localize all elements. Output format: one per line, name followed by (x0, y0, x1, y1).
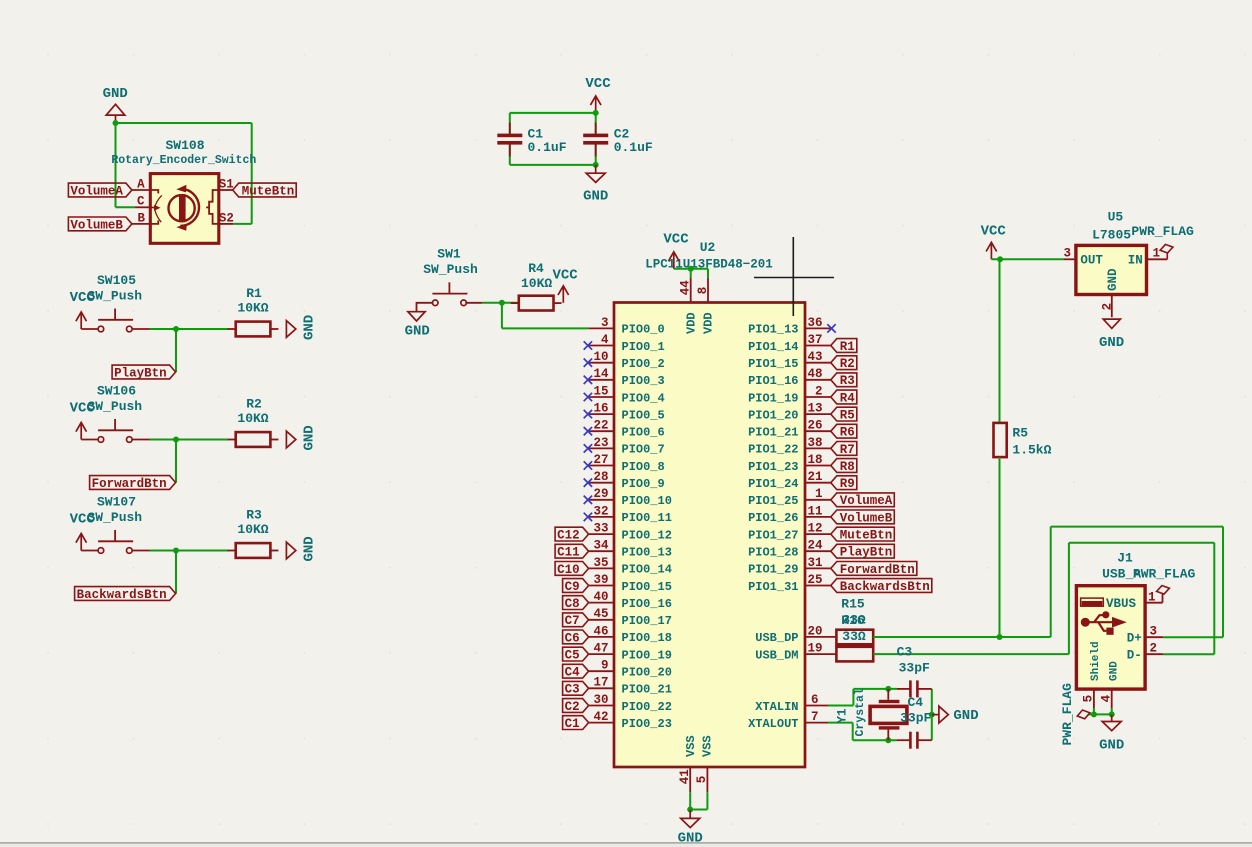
svg-text:C7: C7 (565, 614, 580, 628)
U2 pin 6 XTALIN (755, 693, 828, 714)
wire GND to S2 (bottom segment) (233, 223, 252, 225)
svg-text:26: 26 (807, 419, 822, 433)
svg-text:SW1: SW1 (437, 247, 461, 262)
wire USB_DP up (1050, 527, 1052, 637)
wire to pin 3 PIO0_0 (502, 327, 589, 329)
net label VolumeA (68, 183, 131, 197)
svg-text:2: 2 (815, 384, 823, 398)
svg-text:27: 27 (593, 453, 608, 467)
net label BackwardsBtn (831, 579, 932, 593)
svg-text:36: 36 (807, 316, 822, 330)
net label R8 (831, 459, 857, 473)
U2 pin 17 PIO0_21 (589, 676, 672, 697)
U5 pin 3 OUT (1063, 247, 1103, 268)
svg-text:PIO0_0: PIO0_0 (622, 323, 665, 337)
svg-text:GND: GND (1108, 661, 1120, 681)
svg-text:PIO1_14: PIO1_14 (748, 340, 798, 354)
J1 pin 3 D+ (1127, 625, 1163, 646)
net label C1 (563, 716, 589, 730)
net label C12 (555, 527, 589, 541)
svg-text:D-: D- (1127, 649, 1142, 663)
wire R5 down to USB_DP (999, 457, 1001, 637)
capacitor C1 (497, 123, 522, 157)
net label R7 (831, 442, 857, 456)
svg-text:38: 38 (807, 436, 822, 450)
svg-text:D+: D+ (1127, 632, 1142, 646)
svg-text:XTALIN: XTALIN (755, 700, 798, 714)
svg-text:ForwardBtn: ForwardBtn (92, 477, 167, 491)
net label C2 (563, 699, 589, 713)
svg-text:R2: R2 (840, 357, 855, 371)
junction J1 shield (1091, 711, 1097, 717)
resistor R1 (228, 322, 279, 337)
svg-text:GND: GND (302, 315, 318, 340)
wire C1 bottom vertical (509, 144, 511, 165)
svg-text:U2: U2 (700, 240, 716, 255)
power symbol VCC (SW106) (70, 400, 99, 439)
svg-text:R4: R4 (528, 261, 544, 276)
net label R6 (831, 424, 857, 438)
svg-text:Shield: Shield (1090, 641, 1102, 681)
net label PlayBtn (831, 544, 895, 558)
svg-text:C10: C10 (557, 563, 580, 577)
wire XTALIN to crystal (828, 705, 853, 707)
svg-text:PIO0_21: PIO0_21 (622, 683, 672, 697)
svg-text:SW105: SW105 (97, 273, 136, 288)
svg-text:Rotary_Encoder_Switch: Rotary_Encoder_Switch (111, 154, 256, 167)
junction ForwardBtn node (173, 437, 179, 443)
svg-text:VolumeA: VolumeA (840, 494, 893, 508)
svg-text:11: 11 (807, 504, 822, 518)
power symbol VCC (R4 pull-up) (552, 268, 578, 303)
svg-text:C: C (137, 195, 145, 209)
svg-text:PIO0_20: PIO0_20 (622, 666, 672, 680)
svg-text:PIO0_15: PIO0_15 (622, 580, 672, 594)
svg-text:1.5kΩ: 1.5kΩ (1012, 443, 1051, 458)
net label VolumeB (68, 217, 131, 231)
svg-text:31: 31 (807, 556, 822, 570)
svg-text:VBUS: VBUS (1106, 597, 1137, 611)
svg-text:R9: R9 (840, 477, 855, 491)
wire C1 top vertical (509, 113, 511, 134)
svg-text:PIO1_19: PIO1_19 (748, 391, 798, 405)
U2 pin 25 PIO1_31 (748, 573, 831, 594)
svg-text:PIO1_27: PIO1_27 (748, 528, 798, 542)
SW108 pin B (132, 211, 150, 225)
svg-text:30: 30 (593, 693, 608, 707)
svg-text:GND: GND (302, 536, 318, 561)
power symbol VCC (U2) (663, 232, 689, 269)
U2 pin 32 PIO0_11 (no-connect) (584, 504, 672, 525)
svg-text:OUT: OUT (1080, 254, 1103, 268)
svg-text:12: 12 (807, 522, 822, 536)
svg-text:35: 35 (593, 556, 608, 570)
U2 pin 37 PIO1_14 (748, 333, 831, 354)
svg-text:8: 8 (696, 287, 710, 295)
svg-text:GND: GND (302, 425, 318, 450)
U2 pin 7 XTALOUT (748, 710, 828, 731)
net label PlayBtn (112, 365, 176, 379)
wire crystal left down (852, 723, 854, 741)
svg-text:C8: C8 (565, 597, 580, 611)
svg-text:PIO0_13: PIO0_13 (622, 546, 672, 560)
wire SW107 to R3 (150, 550, 229, 552)
wire VDD pin 44 drop (690, 269, 692, 278)
svg-text:29: 29 (593, 487, 608, 501)
svg-text:Y1: Y1 (836, 708, 850, 723)
svg-text:39: 39 (593, 573, 608, 587)
net label C11 (555, 544, 589, 558)
net label R5 (831, 407, 857, 421)
capacitor C2 (583, 123, 608, 157)
svg-text:14: 14 (593, 367, 609, 381)
svg-text:4: 4 (601, 333, 609, 347)
svg-text:SW108: SW108 (165, 138, 204, 153)
junction VCC at pin 44 (688, 266, 694, 272)
wire crystal right rail (931, 689, 933, 740)
svg-text:J1: J1 (1117, 551, 1133, 566)
U2 pin 26 PIO1_21 (748, 419, 831, 440)
U2 pin 3 PIO0_0 (589, 316, 665, 337)
wire USB_DP top run (1051, 526, 1223, 528)
svg-text:PlayBtn: PlayBtn (840, 546, 893, 560)
svg-text:28: 28 (593, 470, 608, 484)
U2 pin 38 PIO1_22 (748, 436, 831, 457)
svg-text:18: 18 (807, 453, 822, 467)
svg-text:IN: IN (1128, 254, 1143, 268)
svg-text:PIO1_31: PIO1_31 (748, 580, 798, 594)
wire USB_DP to corner (1000, 636, 1051, 638)
wire GND down to pin C (115, 123, 117, 207)
wire crystal left up (852, 689, 854, 706)
junction J1 gnd (1109, 711, 1115, 717)
power symbol GND (SW106 net) (286, 425, 317, 450)
power symbol GND (J1) (1099, 714, 1124, 753)
svg-text:13: 13 (807, 402, 822, 416)
svg-text:U5: U5 (1108, 209, 1124, 224)
junction BackwardsBtn node (173, 548, 179, 554)
wire USB_DM down to D- (1213, 543, 1215, 654)
J1 pin 4 GND (1100, 661, 1121, 708)
U2 pin 40 PIO0_16 (589, 590, 672, 611)
net label ForwardBtn (90, 476, 176, 490)
svg-text:1: 1 (1148, 590, 1156, 604)
rotary encoder switch SW108 body (150, 174, 219, 244)
wire VCC to U5 OUT (991, 258, 1063, 260)
wire to J1 D+ pin (1163, 636, 1223, 638)
U2 pin 1 PIO1_25 (748, 487, 831, 508)
U2 pin 15 PIO0_4 (no-connect) (584, 384, 665, 405)
U2 pin 8 VDD (696, 278, 716, 334)
svg-text:9: 9 (601, 659, 609, 673)
svg-text:47: 47 (593, 642, 608, 656)
junction GND at U2 (687, 807, 693, 813)
svg-text:PIO0_14: PIO0_14 (622, 563, 672, 577)
svg-text:C11: C11 (557, 546, 580, 560)
SW108 pin A (132, 178, 150, 192)
U2 pin 21 PIO1_24 (748, 470, 831, 491)
J1 USB trident icon (1081, 611, 1126, 635)
svg-text:PIO1_22: PIO1_22 (748, 443, 798, 457)
svg-text:PWR_FLAG: PWR_FLAG (1131, 224, 1194, 239)
svg-text:C4: C4 (565, 666, 581, 680)
net label C10 (555, 562, 589, 576)
power flag PWR_FLAG symbol (J1 shield) (1076, 708, 1091, 720)
net label VolumeA (831, 493, 895, 507)
svg-text:VSS: VSS (684, 735, 698, 757)
wire USB_DP down to D+ (1222, 527, 1224, 638)
capacitor C3 (897, 680, 932, 697)
power symbol GND (SW1) (405, 303, 434, 340)
svg-text:S2: S2 (219, 211, 234, 225)
svg-text:VCC: VCC (585, 76, 611, 92)
net label VolumeB (831, 510, 895, 524)
svg-text:R15: R15 (841, 597, 865, 612)
wire R16 to corner (873, 653, 1069, 655)
junction SW1 node (499, 300, 505, 306)
svg-text:33pF: 33pF (900, 711, 931, 726)
wire R15 to USB_DP net (873, 636, 999, 638)
SW108 pin S2 (219, 211, 234, 225)
svg-text:MuteBtn: MuteBtn (840, 529, 893, 543)
svg-text:GND: GND (103, 86, 128, 102)
svg-text:2: 2 (1149, 642, 1157, 656)
wire VSS pin 41 to GND (689, 792, 691, 809)
svg-text:R6: R6 (840, 426, 855, 440)
net label C6 (563, 630, 589, 644)
svg-text:VCC: VCC (981, 224, 1007, 240)
svg-text:R4: R4 (840, 391, 856, 405)
U2 pin 16 PIO0_5 (no-connect) (584, 402, 665, 423)
svg-text:5: 5 (695, 776, 709, 784)
power symbol VCC (SW105) (70, 290, 99, 329)
svg-text:PIO1_25: PIO1_25 (748, 494, 798, 508)
svg-text:10KΩ: 10KΩ (237, 301, 268, 316)
svg-text:PIO1_21: PIO1_21 (748, 426, 798, 440)
svg-text:42: 42 (593, 710, 608, 724)
wire VSS join (690, 809, 707, 811)
U2 pin 30 PIO0_22 (589, 693, 672, 714)
svg-text:3: 3 (601, 316, 609, 330)
U2 pin 35 PIO0_14 (589, 556, 672, 577)
power symbol GND (decoupling) (583, 165, 608, 205)
net label C7 (563, 613, 589, 627)
junction crystal bottom (885, 737, 891, 743)
svg-text:BackwardsBtn: BackwardsBtn (77, 588, 167, 602)
svg-text:R3: R3 (840, 374, 855, 388)
resistor R15 (836, 630, 873, 645)
net label R2 (831, 356, 857, 370)
wire to J1 D- pin (1163, 653, 1214, 655)
wire down to label BackwardsBtn (175, 551, 177, 594)
svg-text:PIO0_16: PIO0_16 (622, 597, 672, 611)
svg-text:43: 43 (807, 350, 822, 364)
wire SW106 to R2 (150, 439, 229, 441)
crystal Y1 (870, 689, 907, 740)
U2 pin 19 USB_DM (755, 642, 836, 663)
SW108 pin C (135, 195, 150, 209)
svg-text:VolumeB: VolumeB (70, 218, 123, 232)
regulator U5 body (1076, 245, 1147, 294)
power symbol GND (rotary encoder) (103, 86, 128, 123)
J1 VBUS blade icon (1081, 598, 1104, 606)
svg-text:40: 40 (593, 590, 608, 604)
U2 pin 42 PIO0_23 (589, 710, 672, 731)
svg-text:R3: R3 (246, 508, 262, 523)
svg-text:C6: C6 (565, 631, 580, 645)
svg-text:USB_DP: USB_DP (755, 631, 798, 645)
U2 pin 23 PIO0_7 (no-connect) (584, 436, 665, 457)
svg-text:PIO0_5: PIO0_5 (622, 408, 665, 422)
U2 pin 10 PIO0_2 (no-connect) (584, 350, 665, 371)
svg-text:GND: GND (405, 324, 430, 340)
svg-text:PIO1_15: PIO1_15 (748, 357, 798, 371)
wire C2 bottom vertical (595, 144, 597, 165)
wire to pin C (horizontal) (116, 206, 135, 208)
U2 pin 29 PIO0_10 (no-connect) (584, 487, 672, 508)
power symbol VCC (decoupling) (585, 76, 611, 113)
wire down to label ForwardBtn (175, 440, 177, 483)
U2 pin 20 USB_DP (755, 624, 836, 645)
U2 pin 44 VDD (678, 278, 698, 334)
svg-text:22: 22 (593, 419, 608, 433)
net label MuteBtn (233, 183, 297, 197)
capacitor C4 (897, 732, 932, 749)
svg-text:SW_Push: SW_Push (87, 399, 142, 414)
svg-text:SW_Push: SW_Push (87, 510, 142, 525)
svg-text:PIO1_20: PIO1_20 (748, 408, 798, 422)
wire USB_DM up (1068, 543, 1070, 654)
svg-text:1: 1 (815, 487, 823, 501)
svg-text:PIO0_23: PIO0_23 (622, 717, 672, 731)
svg-text:VolumeB: VolumeB (840, 511, 893, 525)
svg-text:PIO0_4: PIO0_4 (622, 391, 665, 405)
U2 pin 45 PIO0_17 (589, 607, 672, 628)
svg-text:32: 32 (593, 504, 608, 518)
net label ForwardBtn (831, 562, 917, 576)
net label R1 (831, 339, 857, 353)
svg-text:ForwardBtn: ForwardBtn (840, 563, 915, 577)
SW108 pin S1 (219, 177, 234, 191)
svg-text:0.1uF: 0.1uF (528, 140, 567, 155)
svg-text:GND: GND (678, 830, 703, 846)
U2 pin 12 PIO1_27 (748, 522, 831, 543)
svg-text:10KΩ: 10KΩ (237, 522, 268, 537)
U2 pin 11 PIO1_26 (748, 504, 831, 525)
svg-text:B: B (137, 211, 145, 225)
svg-text:PIO0_3: PIO0_3 (622, 374, 665, 388)
switch SW107 (98, 530, 149, 553)
J1 pin 5 Shield (1082, 641, 1102, 708)
svg-text:GND: GND (1099, 335, 1124, 351)
svg-text:PIO0_11: PIO0_11 (622, 511, 672, 525)
resistor R16 (836, 647, 873, 662)
svg-text:PIO0_2: PIO0_2 (622, 357, 665, 371)
wire Shield pin down (1093, 708, 1095, 714)
wire junction down to PIO0_0 (501, 303, 503, 329)
svg-text:10KΩ: 10KΩ (237, 411, 268, 426)
svg-text:33Ω: 33Ω (842, 629, 866, 644)
svg-text:21: 21 (807, 470, 822, 484)
svg-text:PIO0_17: PIO0_17 (622, 614, 672, 628)
junction GND node (593, 162, 599, 168)
svg-text:GND: GND (953, 708, 978, 724)
svg-text:PIO1_29: PIO1_29 (748, 563, 798, 577)
wire down to label PlayBtn (175, 329, 177, 372)
svg-text:2: 2 (1100, 303, 1114, 311)
power symbol VCC (SW107) (70, 511, 99, 550)
junction PlayBtn node (173, 326, 179, 332)
wire crystal top rail (853, 688, 897, 690)
svg-text:GND: GND (583, 189, 608, 205)
U2 pin 48 PIO1_16 (748, 367, 831, 388)
svg-text:SW106: SW106 (97, 384, 136, 399)
svg-text:3: 3 (1149, 625, 1157, 639)
IC U2 body (614, 303, 805, 768)
svg-text:GND: GND (1099, 738, 1124, 754)
wire SW105 to R1 (150, 328, 229, 330)
svg-text:PIO1_13: PIO1_13 (748, 323, 798, 337)
svg-text:PIO0_12: PIO0_12 (622, 528, 672, 542)
U2 pin 36 PIO1_13 (no-connect) (748, 316, 836, 337)
svg-text:33: 33 (593, 522, 608, 536)
svg-text:MuteBtn: MuteBtn (242, 184, 295, 198)
svg-text:PWR_FLAG: PWR_FLAG (1133, 567, 1196, 582)
svg-text:45: 45 (593, 607, 608, 621)
J1 pin 1 VBUS (1106, 590, 1163, 611)
net label C3 (563, 681, 589, 695)
svg-text:41: 41 (678, 769, 692, 784)
U2 pin 2 PIO1_19 (748, 384, 831, 405)
svg-text:PlayBtn: PlayBtn (114, 366, 167, 380)
junction at GND net (113, 120, 119, 126)
svg-text:SW107: SW107 (97, 495, 136, 510)
svg-text:48: 48 (807, 367, 822, 381)
svg-text:PIO0_9: PIO0_9 (622, 477, 665, 491)
net label BackwardsBtn (75, 587, 176, 601)
svg-text:PIO1_23: PIO1_23 (748, 460, 798, 474)
svg-text:PWR_FLAG: PWR_FLAG (1060, 683, 1075, 746)
svg-text:0.1uF: 0.1uF (614, 140, 653, 155)
U2 pin 5 VSS (695, 735, 715, 792)
wire VCC to C1 top (510, 112, 596, 114)
svg-text:VDD: VDD (701, 312, 715, 334)
power symbol GND (U2) (678, 810, 703, 847)
svg-text:C5: C5 (565, 649, 580, 663)
svg-text:SW_Push: SW_Push (423, 262, 478, 277)
switch SW106 (98, 419, 149, 442)
U2 pin 14 PIO0_3 (no-connect) (584, 367, 665, 388)
svg-text:25: 25 (807, 573, 822, 587)
wire VSS pin 5 down (706, 792, 708, 809)
net label R9 (831, 476, 857, 490)
U2 pin 41 VSS (678, 735, 698, 792)
U5 pin 1 IN (1128, 247, 1168, 268)
net label R4 (831, 390, 857, 404)
net label C8 (563, 596, 589, 610)
power symbol GND (U5) (1099, 319, 1124, 351)
power symbol GND (crystal) (932, 706, 979, 724)
svg-text:R2: R2 (246, 397, 262, 412)
svg-text:1: 1 (1152, 247, 1160, 261)
svg-text:C2: C2 (565, 700, 580, 714)
U2 pin 9 PIO0_20 (589, 659, 672, 680)
resistor R5 (994, 423, 1007, 457)
connector J1 body (1076, 586, 1145, 689)
U2 pin 34 PIO0_13 (589, 539, 672, 560)
U2 pin 46 PIO0_18 (589, 624, 672, 645)
svg-text:R5: R5 (840, 409, 855, 423)
